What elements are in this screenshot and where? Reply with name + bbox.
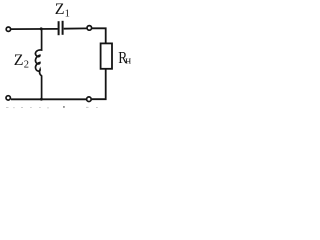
node circle top (87, 26, 92, 31)
terminal input top-left (6, 27, 10, 31)
wire top-left horizontal (11, 28, 58, 30)
label Z2 (14, 52, 29, 71)
capacitor Z1 right plate (62, 21, 64, 35)
wire top-right with corner down (92, 28, 106, 43)
wire top middle (64, 27, 87, 29)
wire resistor bottom lead and corner (92, 69, 106, 99)
svg-text:2: 2 (24, 60, 29, 71)
resistor Rн body (101, 43, 112, 68)
scan noise specks along bottom edge (6, 106, 98, 108)
svg-text:Z: Z (14, 52, 24, 69)
junction node bottom of Z2 (40, 98, 43, 101)
terminal input bottom-left (6, 96, 10, 100)
label Rн (118, 50, 131, 67)
junction node top of Z2 (40, 27, 43, 30)
wire bottom horizontal (11, 98, 86, 100)
node circle bottom (87, 97, 92, 102)
label Z1 (55, 1, 70, 19)
capacitor Z1 left plate (58, 21, 60, 35)
svg-text:Z: Z (55, 1, 65, 18)
svg-text:н: н (125, 54, 131, 66)
svg-text:1: 1 (65, 9, 70, 20)
inductor Z2 (coil with 3 loops) (35, 30, 41, 99)
